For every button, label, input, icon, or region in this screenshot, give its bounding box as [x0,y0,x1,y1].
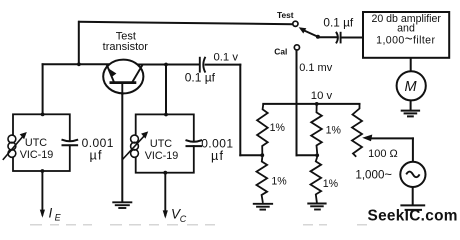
resistor R3 1% upper middle divider [311,104,322,153]
junction dot T1 top [41,113,45,117]
svg-text:transistor: transistor [103,41,149,53]
meter M circle [397,71,426,100]
potentiometer R5 wiper arrowhead [362,135,372,142]
wire left vertical from top rail to emitter node [78,22,80,65]
wire from capacitor C2 to corner [206,64,241,66]
gap in T2 right edge for capacitor C4 [193,141,195,145]
variable inductor L2 coil (tank T2 left edge) [131,135,139,143]
amplifier box 20db [363,12,449,58]
transistor Q1 base lead inside [121,83,123,95]
transformer tank T2 box UTC VIC-19 [136,114,194,172]
svg-text:100 Ω: 100 Ω [368,148,398,160]
arrowhead of L1 adjust arrow [20,132,27,139]
transistor Q1 emitter diagonal [107,64,115,82]
wire top rail from left loop to Test contact [79,22,293,24]
transformer tank T1 box UTC VIC-19 [13,114,70,171]
wire vertical to tank T1 top [42,64,44,114]
junction dot 10v rail middle divider [315,102,319,106]
svg-text:1%: 1% [270,122,286,134]
switch S1 Cal contact [294,45,299,50]
ground transistor base [112,202,132,208]
gap in T1 right edge for capacitor C3 [69,141,71,145]
arrowhead of L2 adjust arrow [141,131,148,138]
wire 0.1v branch vertical [239,65,241,156]
wire emitter horizontal [43,63,108,65]
wire Cal branch horizontal to divider node [297,154,318,156]
wire 10v rail [263,103,359,105]
junction dot T2 top [164,113,168,117]
resistor R1 1% upper left divider [257,104,268,154]
svg-text:1,000~: 1,000~ [355,167,392,182]
svg-text:VIC-19: VIC-19 [145,150,179,162]
wire wiper horizontal [371,137,413,139]
svg-text:Test: Test [277,10,294,20]
potentiometer R5 100 ohm [352,104,362,157]
svg-text:UTC: UTC [25,137,47,149]
svg-text:1%: 1% [326,124,342,136]
arrow I_E current [41,171,43,216]
switch S1 arm arrowhead [299,27,307,33]
junction dot emitter node [77,62,81,66]
gap in T1 left edge for coil [12,135,15,156]
junction dot collector node [164,63,168,67]
junction dot switch pole [316,35,320,39]
wire capacitor C1 to amplifier box [341,37,363,39]
ground middle divider [307,204,326,210]
wire Cal branch vertical [296,50,298,155]
ground AC source (drawn over watermark) [400,205,425,210]
svg-text:I: I [49,205,53,220]
AC source sine symbol [406,172,419,178]
svg-text:VIC-19: VIC-19 [20,149,54,161]
svg-text:E: E [55,213,62,223]
wire vertical to tank T2 top [165,65,167,115]
capacitor C3 0.001uf on T1 right edge [62,140,79,146]
svg-text:UTC: UTC [150,138,172,150]
junction dot left divider mid node [260,153,264,157]
wire switch pole to capacitor C1 [318,36,336,38]
svg-text:1%: 1% [271,176,287,188]
capacitor C1 0.1uf after switch [336,32,341,44]
wire collector horizontal [138,64,199,66]
transistor Q1 collector diagonal [132,64,143,82]
variable inductor L2 adjust arrow [122,134,146,160]
gap in T2 left edge for coil [134,135,137,156]
svg-text:0.1 mv: 0.1 mv [299,62,333,74]
wire AC source to ground [412,187,414,205]
transistor Q1 base bar [110,81,137,84]
wire transistor base lead to ground [121,83,123,202]
wire amplifier box to meter [410,58,412,72]
transistor Q1 emitter arrowhead [109,69,116,77]
ground left divider [253,204,273,210]
svg-text:µf: µf [211,149,224,163]
arrow V_C voltage [164,173,166,217]
junction dot T1 bottom [41,169,45,173]
svg-text:M: M [404,79,417,95]
resistor R4 1% lower middle divider [311,157,322,203]
svg-text:10 v: 10 v [311,90,333,102]
svg-text:1%: 1% [323,178,339,190]
resistor R2 1% lower left divider [257,157,268,203]
ground meter [401,111,420,117]
junction dot T2 bottom [163,171,167,175]
wire AC source top vertical to wiper corner [412,138,414,162]
junction dot middle divider mid node [315,153,319,157]
variable inductor L1 adjust arrow [3,135,25,160]
svg-text:µf: µf [90,148,103,162]
svg-text:1,000~filter: 1,000~filter [376,31,435,46]
switch S1 Test contact [293,21,298,26]
svg-text:Cal: Cal [274,47,287,57]
svg-text:0.1 µf: 0.1 µf [185,71,216,85]
decorative faint cut-off caption row [30,224,367,226]
transistor Q1 circle [103,60,143,94]
svg-text:C: C [180,214,187,224]
AC source 1000cps circle [400,162,425,187]
wire 0.1v branch horizontal to divider node [240,154,262,156]
svg-text:0.1 v: 0.1 v [214,52,239,64]
wire meter to ground [410,100,412,110]
capacitor C2 0.1uf in collector line [200,57,206,73]
svg-text:0.1 µf: 0.1 µf [323,15,353,29]
switch S1 arm [303,30,318,37]
capacitor C4 0.001uf on T2 right edge [186,140,203,146]
variable inductor L1 coil (tank T1 left edge) [8,135,16,143]
